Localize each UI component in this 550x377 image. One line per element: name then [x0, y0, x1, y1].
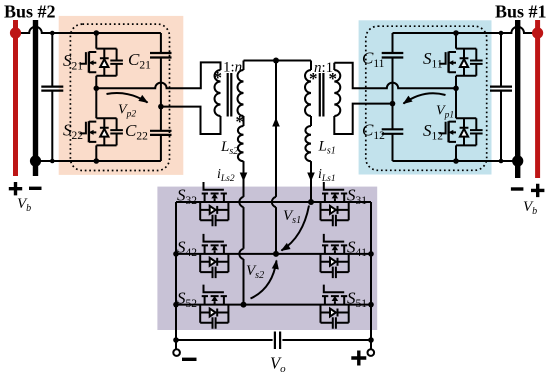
svg-text:Bus #2: Bus #2 — [4, 2, 56, 22]
svg-text:*: * — [236, 112, 245, 131]
svg-text:*: * — [309, 69, 318, 88]
svg-text:1:n: 1:n — [223, 60, 242, 76]
svg-text:*: * — [329, 69, 338, 88]
svg-text:*: * — [214, 68, 223, 87]
svg-text:Bus #1: Bus #1 — [495, 2, 547, 22]
